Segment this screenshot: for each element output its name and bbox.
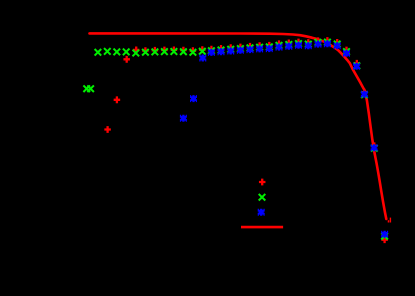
red plus data series	[104, 37, 388, 243]
curve tail dashes	[388, 220, 390, 222]
legend blue star	[258, 209, 265, 216]
legend red line	[241, 226, 283, 229]
legend red plus	[259, 179, 266, 186]
green cross data series	[83, 39, 388, 240]
legend green cross	[259, 194, 266, 201]
blue star data series	[180, 40, 388, 238]
red fitted curve	[90, 33, 387, 219]
